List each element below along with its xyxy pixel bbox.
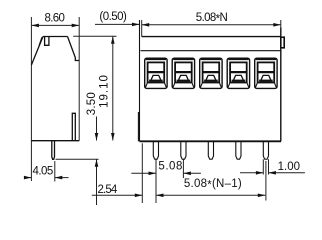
front right tab [281, 37, 284, 48]
dim 4.05 right extension line [54, 161, 56, 182]
dim (0.50) left shaft with arrow [95, 23, 140, 27]
svg-text:3.50: 3.50 [86, 92, 98, 115]
side view top-right slant [68, 37, 80, 61]
bottom extension: pin2 center [182, 160, 184, 179]
svg-text:5.08*N: 5.08*N [196, 12, 228, 26]
side view bottom edge [31, 140, 79, 142]
bottom extension: pin5 center [265, 161, 267, 201]
pin 3 [208, 141, 213, 159]
svg-text:19.10: 19.10 [98, 75, 110, 108]
front body left tab edge [139, 20, 141, 141]
pin 1 [153, 141, 158, 159]
svg-text:2.54: 2.54 [98, 184, 118, 196]
svg-text:(0.50): (0.50) [99, 11, 127, 23]
terminal cell 4 [227, 58, 249, 88]
terminal cell 5 [255, 58, 277, 88]
side view top edge [43, 36, 68, 38]
side view top notch rectangle [45, 37, 49, 46]
bottom extension: pin5 right edge [268, 159, 270, 174]
front inner horizontal line [141, 50, 281, 52]
front body left inner edge / (0.50) extension [141, 20, 143, 37]
pin 5 [263, 141, 268, 159]
dim 19.10 line with arrows [111, 36, 115, 140]
dim 5.08*N line with arrows [142, 23, 281, 27]
dim 2.54 / 5.08*(N-1) shared line with arrows [92, 194, 265, 198]
front body outline [138, 28, 284, 142]
dim 5.08*N right extension [280, 20, 282, 28]
terminal cell 3 [200, 58, 222, 88]
svg-text:5.08: 5.08 [158, 161, 182, 173]
terminal cell 2 [172, 58, 194, 88]
side view right edge + extension line for 8.60 [78, 17, 80, 141]
bottom extension: pin5 left edge [262, 159, 264, 174]
extension: pin tip level line for 3.50 [56, 158, 99, 160]
svg-text:8.60: 8.60 [45, 13, 65, 25]
bottom extension: body left edge [141, 143, 143, 203]
extension line at part top for 19.10 [73, 35, 116, 37]
svg-text:4.05: 4.05 [33, 165, 54, 177]
side view solder pin [52, 141, 55, 160]
pin 4 [236, 141, 241, 159]
side view left edge + extension line (8.60 top, 4.05 bottom) [30, 17, 32, 181]
svg-text:5.08*(N–1): 5.08*(N–1) [184, 178, 242, 192]
dim 5.08 arrows (outside) [131, 172, 201, 176]
svg-text:1.00: 1.00 [278, 161, 300, 173]
bottom extension: pin1 center [155, 160, 157, 204]
dim 4.05 arrows (outside) [24, 176, 69, 180]
dim 3.50 upper shaft with down arrow [95, 117, 99, 206]
side view top-left slant [31, 37, 43, 66]
front left lower thick edge [137, 112, 139, 141]
dim 1.00 arrows (outside) [240, 171, 305, 175]
terminal cell 1 [145, 58, 167, 88]
pin 2 [181, 141, 186, 159]
side view inner thin rectangle [72, 113, 75, 140]
dim 8.60 line with arrows [31, 24, 79, 28]
